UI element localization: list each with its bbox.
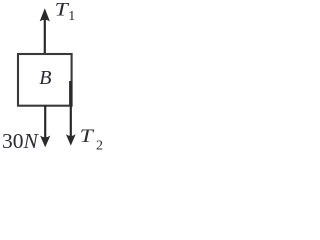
arrowhead T2 (down) [66, 134, 76, 145]
svg-text:2: 2 [96, 138, 103, 153]
svg-text:B: B [39, 67, 51, 89]
svg-text:30N: 30N [2, 129, 40, 153]
wire: T2 arrow stem (down below box) [70, 81, 72, 137]
svg-text:T: T [80, 125, 96, 146]
svg-text:1: 1 [68, 9, 75, 24]
wire: T1 arrow stem (up from box top) [44, 13, 46, 53]
block B (box outline) [18, 54, 72, 106]
arrowhead T1 (up) [40, 8, 50, 21]
wire: 30N arrow stem (down from box bottom) [44, 105, 46, 139]
wire: T2 string segment along right edge inside box [69, 81, 71, 105]
arrowhead 30N (down) [40, 136, 50, 148]
